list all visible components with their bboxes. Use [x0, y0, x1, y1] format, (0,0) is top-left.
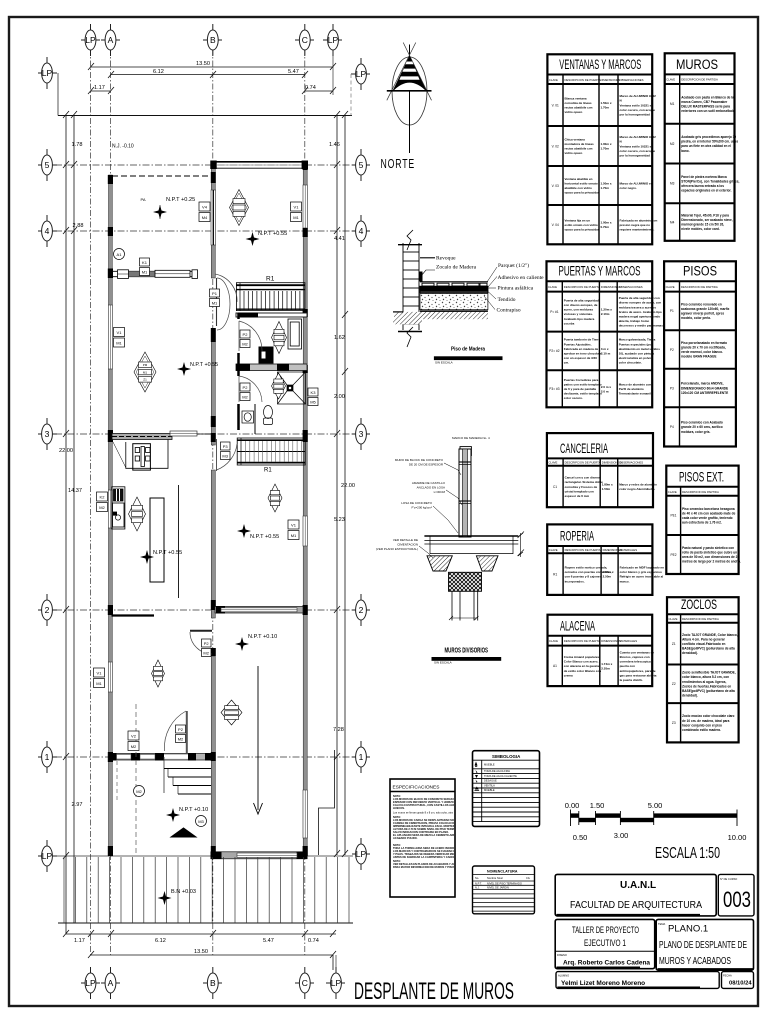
- svg-text:por la homogeneidad: por la homogeneidad: [620, 113, 651, 117]
- svg-text:Z1: Z1: [143, 378, 147, 382]
- uanl box: [555, 874, 716, 916]
- svg-text:DESAGUE: DESAGUE: [484, 779, 497, 783]
- svg-text:marca Comex, CB7 Pasamaker: marca Comex, CB7 Pasamaker: [681, 100, 728, 104]
- circle A bottom: [101, 967, 120, 999]
- 003 box: [718, 874, 754, 916]
- svg-text:6.12: 6.12: [155, 938, 166, 944]
- svg-text:2.50m: 2.50m: [603, 575, 612, 579]
- svg-text:CANCELERIA: CANCELERIA: [560, 440, 608, 456]
- svg-text:CLAVE: CLAVE: [548, 461, 557, 465]
- svg-text:2.88: 2.88: [73, 223, 84, 229]
- svg-text:Zocalo de Madera: Zocalo de Madera: [436, 265, 477, 271]
- svg-text:Piso ceramico barcelona hexag: Piso ceramico barcelona hexagona: [682, 507, 735, 511]
- svg-text:TEMA: TEMA: [658, 922, 665, 926]
- svg-text:4: 4: [45, 226, 50, 236]
- north symbol: [392, 57, 427, 125]
- row 2 wall B..C: [215, 607, 303, 614]
- svg-text:Refrigio en acero inoxidable a: Refrigio en acero inoxidable al: [620, 575, 664, 579]
- svg-text:M1: M1: [143, 370, 147, 374]
- table MUROS: [665, 53, 740, 241]
- svg-text:DESCRIPCION DE PUERTA: DESCRIPCION DE PUERTA: [565, 461, 601, 465]
- leader zocalo: [421, 270, 435, 276]
- svg-text:PA: PA: [140, 197, 145, 202]
- svg-text:LP: LP: [42, 851, 53, 861]
- table ALACENA: [548, 615, 657, 686]
- svg-text:P2: P2: [243, 385, 249, 390]
- svg-text:A1: A1: [553, 664, 557, 668]
- svg-text:120x120 CM ANTIRREPELENTE: 120x120 CM ANTIRREPELENTE: [681, 391, 728, 395]
- svg-text:FACULTAD DE ARQUITECTURA: FACULTAD DE ARQUITECTURA: [570, 899, 702, 911]
- svg-text:DESCRIPCION DE PARTIDA: DESCRIPCION DE PARTIDA: [682, 617, 719, 621]
- svg-text:Blanca ventana: Blanca ventana: [565, 96, 587, 100]
- leaders with tiny labels: [376, 458, 446, 551]
- svg-text:V1: V1: [291, 523, 297, 528]
- svg-text:V4: V4: [202, 205, 208, 210]
- svg-text:Piso de Madera: Piso de Madera: [451, 347, 485, 353]
- wall A outer left: gray body: [109, 175, 113, 856]
- svg-text:CLAVE: CLAVE: [666, 285, 675, 289]
- circle LP right of row LP elbow: [351, 58, 370, 90]
- svg-text:con diseno europeo, de: con diseno europeo, de: [564, 303, 598, 307]
- svg-text:N° DE CURSO: N° DE CURSO: [720, 877, 737, 881]
- svg-text:marco.: marco.: [620, 579, 630, 583]
- leader contrapiso: [484, 296, 495, 310]
- svg-text:P3: P3: [670, 386, 674, 390]
- tag V4/M4: [199, 202, 210, 222]
- svg-text:2.00: 2.00: [334, 394, 345, 400]
- svg-text:opaco para la privacidad: opaco para la privacidad: [565, 228, 600, 232]
- tag K2/M2 kitchen: [97, 492, 108, 512]
- svg-text:M2: M2: [242, 395, 248, 400]
- svg-text:R1: R1: [553, 572, 557, 576]
- svg-text:0.74: 0.74: [305, 85, 316, 91]
- svg-text:cristal templado con: cristal templado con: [565, 489, 594, 493]
- svg-text:PISOS: PISOS: [683, 264, 717, 279]
- svg-text:Ventana estilo 10221 en: Ventana estilo 10221 en: [620, 144, 654, 148]
- terrace base line: [58, 922, 353, 924]
- svg-text:piedra, en el interior 50%200: piedra, en el interior 50%200 cm. usos: [681, 140, 738, 144]
- svg-text:CLAVE: CLAVE: [549, 639, 558, 643]
- svg-text:3: 3: [359, 429, 364, 439]
- table PUERTAS Y MARCOS: [547, 261, 664, 407]
- svg-text:P1: P1: [212, 291, 218, 296]
- svg-text:electrostatica en polvo: electrostatica en polvo: [619, 356, 652, 360]
- svg-text:5.47: 5.47: [288, 69, 299, 75]
- svg-text:5: 5: [359, 160, 364, 170]
- svg-text:Marco de ALUMINIO 9282: Marco de ALUMINIO 9282: [620, 94, 657, 98]
- circle 4 left: [38, 215, 57, 247]
- svg-text:1.80m x: 1.80m x: [603, 570, 614, 574]
- circle LP bottom-left: [38, 840, 57, 872]
- svg-text:2.55m: 2.55m: [601, 667, 610, 671]
- svg-text:VENTILA: VENTILA: [484, 783, 495, 787]
- svg-text:color blanco y gris espacioso: color blanco y gris espacioso: [620, 570, 662, 574]
- svg-text:metros de largo por 2 metros d: metros de largo por 2 metros de ancho.: [682, 560, 741, 564]
- svg-text:marmol grande 15 cm 50/ 26,: marmol grande 15 cm 50/ 26,: [681, 223, 724, 227]
- svg-text:Z3: Z3: [672, 721, 676, 725]
- svg-text:N.P.T +0.10: N.P.T +0.10: [248, 634, 277, 640]
- svg-text:opaco para la privacidad: opaco para la privacidad: [565, 191, 600, 195]
- bathroom divider wall: [236, 364, 307, 371]
- bath1 closet: [288, 319, 302, 349]
- svg-text:agraver niverje porfeit, spres: agraver niverje porfeit, spres: [681, 312, 724, 316]
- top wall row5 B..C: [211, 161, 307, 163]
- svg-text:V. 04: V. 04: [552, 223, 559, 227]
- svg-text:de estilo color Blanco con: de estilo color Blanco con: [564, 669, 602, 673]
- tag P3/M3 bedroom door: [221, 442, 231, 460]
- driveway long arrow: [254, 666, 263, 814]
- svg-text:P4: P4: [670, 425, 674, 429]
- svg-text:OBSERVACIONES: OBSERVACIONES: [619, 461, 643, 465]
- svg-text:con un espesor de 3/40: con un espesor de 3/40: [564, 356, 598, 360]
- circle tag M2: [134, 786, 145, 797]
- svg-text:M2: M2: [99, 505, 105, 510]
- bath2 shower: [278, 372, 306, 404]
- svg-text:abatibile con vidrio: abatibile con vidrio: [565, 186, 593, 190]
- wall C outer right: [303, 161, 307, 856]
- svg-text:M1: M1: [96, 681, 102, 686]
- svg-text:SIN ESCALA: SIN ESCALA: [435, 361, 453, 365]
- svg-text:espesor de 6 mm: espesor de 6 mm: [565, 494, 590, 498]
- svg-text:puerta con: puerta con: [620, 664, 636, 668]
- svg-text:ROPERIA: ROPERIA: [560, 528, 594, 544]
- svg-text:color oscuro.: color oscuro.: [564, 396, 583, 400]
- svg-text:color oscuro, con acople: color oscuro, con acople: [620, 108, 656, 112]
- svg-text:Ventana fija en un: Ventana fija en un: [565, 218, 591, 222]
- circle LP bottom row A: [81, 967, 100, 999]
- circle 4 right: [352, 215, 370, 247]
- svg-text:1: 1: [45, 752, 50, 762]
- wall B black blocks: [211, 172, 216, 856]
- dim line 13.50 top: [91, 66, 334, 68]
- svg-text:(VER PLANO ESTRUCTURAL): (VER PLANO ESTRUCTURAL): [376, 547, 418, 551]
- plano box: [656, 919, 753, 970]
- svg-text:6.12: 6.12: [153, 69, 164, 75]
- svg-text:1: 1: [359, 752, 364, 762]
- row 1 axis: [55, 756, 353, 758]
- svg-text:vidrio opaco: vidrio opaco: [565, 110, 583, 114]
- svg-text:color blanco, altura 5.2 cm, c: color blanco, altura 5.2 cm, con: [682, 675, 729, 679]
- svg-text:M1: M1: [116, 341, 122, 346]
- svg-text:Zoclo semiflexible TAJOT GRAND: Zoclo semiflexible TAJOT GRANDE,: [682, 671, 736, 675]
- tendido stipple layer: [420, 294, 488, 310]
- svg-text:DIMENSIONES: DIMENSIONES: [601, 285, 621, 289]
- circle 5 left: [38, 149, 57, 181]
- svg-text:conflicto visual.Fabricado en: conflicto visual.Fabricado en: [682, 642, 725, 646]
- wall A black column blocks: [108, 175, 113, 856]
- svg-text:1.62: 1.62: [334, 335, 345, 341]
- tag E2 row1: [176, 725, 186, 743]
- svg-text:DIMENSIONADO 60x4 GRANDE: DIMENSIONADO 60x4 GRANDE: [681, 386, 728, 390]
- svg-text:antirrepujadores, para de: antirrepujadores, para de: [620, 669, 656, 673]
- svg-text:densidad).: densidad).: [682, 651, 698, 655]
- svg-text:U.A.N.L: U.A.N.L: [620, 880, 656, 891]
- svg-text:P2: P2: [243, 332, 249, 337]
- svg-text:M2: M2: [670, 142, 675, 146]
- svg-text:V1: V1: [117, 330, 123, 335]
- svg-text:Marco de ALUMINIO 9282: Marco de ALUMINIO 9282: [620, 135, 657, 139]
- svg-text:P2: P2: [178, 727, 184, 732]
- svg-text:montadora de lineas: montadora de lineas: [565, 142, 595, 146]
- counter edge line: [178, 485, 180, 598]
- left dim chain lines: [65, 116, 67, 935]
- svg-text:Cancel con y con diseno: Cancel con y con diseno: [565, 476, 600, 480]
- svg-text:AMARRE DE CASTILLO: AMARRE DE CASTILLO: [412, 481, 446, 485]
- table PISOS EXT.: [666, 466, 741, 574]
- svg-text:1.00m x: 1.00m x: [601, 221, 612, 225]
- svg-text:LP: LP: [356, 849, 367, 859]
- svg-text:M2: M2: [178, 737, 184, 742]
- svg-text:grande 20 x 60 cms, acrilico: grande 20 x 60 cms, acrilico: [681, 425, 723, 429]
- slab thickness dim: [520, 533, 522, 557]
- svg-text:color negro.: color negro.: [620, 186, 638, 190]
- svg-text:B: B: [210, 978, 216, 988]
- row 2 partial wall A side: [112, 614, 155, 616]
- grid line LP vertical: [90, 49, 92, 955]
- svg-text:LP: LP: [328, 35, 339, 45]
- svg-text:CLAVE: CLAVE: [549, 78, 558, 82]
- table ZOCLOS: [667, 596, 739, 743]
- parquet layer: [420, 282, 488, 286]
- grid line LP right stub bottom: [335, 955, 337, 973]
- bottom dim: [451, 617, 477, 619]
- svg-text:DESCRIPCION DE PUERTA: DESCRIPCION DE PUERTA: [565, 548, 601, 552]
- wall A window segments: [108, 305, 112, 692]
- svg-text:5.23: 5.23: [334, 517, 345, 523]
- svg-text:0.00: 0.00: [565, 801, 580, 810]
- svg-text:ACABADO PULIDO.: ACABADO PULIDO.: [393, 836, 418, 840]
- taller box: [555, 919, 655, 968]
- svg-text:PISOS EXT.: PISOS EXT.: [679, 468, 724, 484]
- svg-text:SIMBOLOGIA: SIMBOLOGIA: [492, 754, 521, 759]
- svg-text:hacer conjunto con el piso: hacer conjunto con el piso: [682, 723, 722, 727]
- svg-text:N.P.T +0.10: N.P.T +0.10: [179, 807, 208, 813]
- leader adhesivo: [488, 277, 497, 288]
- circle C top: [295, 24, 314, 56]
- svg-text:FECHA: FECHA: [723, 974, 732, 978]
- svg-text:1.50m: 1.50m: [602, 487, 611, 491]
- svg-text:M3: M3: [198, 819, 204, 824]
- svg-text:DESCRIPCION DE PARTIDA: DESCRIPCION DE PARTIDA: [682, 490, 719, 494]
- row 3 axis: [55, 433, 353, 435]
- svg-text:con 6 puertas y 8 cajones: con 6 puertas y 8 cajones: [565, 575, 602, 579]
- circle LP bottom right end: [326, 967, 345, 999]
- svg-text:Zoclo macizo color chocolate c: Zoclo macizo color chocolate claro: [682, 714, 734, 718]
- dim line 6.12 / 5.47: [111, 74, 305, 76]
- svg-text:B: B: [210, 35, 216, 45]
- svg-text:K1: K1: [142, 260, 148, 265]
- row 1 wall A..B: [109, 754, 212, 761]
- slab verticals: [429, 536, 431, 554]
- svg-text:DESCRIPCION DE PARTIDA: DESCRIPCION DE PARTIDA: [681, 285, 718, 289]
- svg-text:con alacena en la gaveta: con alacena en la gaveta: [564, 664, 600, 668]
- svg-text:N.J.: N.J.: [475, 886, 480, 890]
- svg-text:Zoclos de huertas.Fabricados e: Zoclos de huertas.Fabricados en: [682, 684, 731, 688]
- break zigzag top: [407, 230, 413, 250]
- circle 2 left: [38, 594, 57, 626]
- svg-text:Acabado tipo madera: Acabado tipo madera: [564, 317, 595, 321]
- chain ticks left: [63, 111, 77, 859]
- svg-text:5.47: 5.47: [263, 938, 274, 944]
- svg-text:2.0 m x: 2.0 m x: [601, 385, 612, 389]
- svg-text:modelo, color perla.: modelo, color perla.: [681, 316, 711, 320]
- svg-text:MURO DE BLOCK DE CONCRETO: MURO DE BLOCK DE CONCRETO: [395, 458, 444, 462]
- door bedroom right (wall B): [216, 439, 218, 471]
- row 3 wall kitchen A..B: [112, 434, 172, 440]
- tag V1/M1 top right: [291, 202, 302, 222]
- svg-text:de 10 cm. de madera, ideal par: de 10 cm. de madera, ideal para: [682, 719, 730, 723]
- svg-text:incorporados.: incorporados.: [565, 579, 585, 583]
- svg-text:HUECOS.: HUECOS.: [393, 806, 405, 810]
- svg-text:L=30CM: L=30CM: [434, 490, 446, 494]
- svg-text:V1: V1: [294, 205, 300, 210]
- fecha box: [722, 972, 754, 989]
- svg-text:rendimientos al agua. ligeros,: rendimientos al agua. ligeros,: [682, 680, 726, 684]
- svg-text:Fabricada en madera de: Fabricada en madera de: [564, 347, 599, 351]
- svg-text:cm.: cm.: [564, 361, 569, 365]
- svg-text:MATERIALES: MATERIALES: [620, 639, 638, 643]
- bath2 sink: [242, 411, 254, 423]
- svg-text:1.17: 1.17: [74, 938, 85, 944]
- door bedroom left (row 2): [190, 632, 212, 654]
- circle 1 left: [38, 741, 57, 773]
- svg-text:BASE(poliPVC) (poliuretano de: BASE(poliPVC) (poliuretano de alta: [682, 689, 735, 693]
- elbow bottom right: [332, 955, 334, 970]
- circle LP left row: [38, 57, 57, 89]
- svg-text:abierta, trabajo homo: abierta, trabajo homo: [619, 319, 650, 323]
- svg-text:C1: C1: [553, 485, 557, 489]
- svg-text:2.10 m: 2.10 m: [601, 352, 611, 356]
- svg-text:M2: M2: [242, 342, 248, 347]
- svg-text:M3: M3: [222, 454, 228, 459]
- svg-text:LP: LP: [85, 978, 96, 988]
- svg-text:7.28: 7.28: [333, 727, 344, 733]
- svg-text:espacios originales en el exte: espacios originales en el exterior.: [681, 189, 731, 193]
- svg-text:PARA MAYOR INFORMACION DE MURO: PARA MAYOR INFORMACION DE MUROS Y PISOS.: [393, 865, 456, 869]
- svg-text:MUEBLE: MUEBLE: [484, 763, 495, 767]
- svg-text:ALACENA: ALACENA: [560, 617, 595, 633]
- svg-text:1.00m x: 1.00m x: [601, 142, 612, 146]
- level text near wall B: [177, 362, 191, 376]
- circle 3 right: [352, 418, 370, 450]
- svg-text:color oscuro, con acople: color oscuro, con acople: [620, 149, 656, 153]
- svg-text:Marco de aluminio con: Marco de aluminio con: [619, 383, 652, 387]
- svg-text:TOMA DE AGUA CALIENTE: TOMA DE AGUA CALIENTE: [484, 774, 517, 778]
- svg-text:PLANO DE DESPLANTE DE: PLANO DE DESPLANTE DE: [659, 940, 747, 951]
- svg-text:2.0 m: 2.0 m: [601, 389, 609, 393]
- svg-text:003: 003: [723, 887, 751, 912]
- svg-text:0.70m: 0.70m: [601, 225, 610, 229]
- elbow from LP right circle: [350, 74, 352, 116]
- row LP bottom wall B..C: [211, 852, 307, 859]
- tag V1/M1 left bedroom: [94, 668, 105, 688]
- top cap: [460, 447, 471, 456]
- svg-text:M1: M1: [293, 215, 299, 220]
- svg-text:N.P.T +0.55: N.P.T +0.55: [153, 550, 182, 556]
- svg-text:vistosas y sistemas.: vistosas y sistemas.: [564, 312, 593, 316]
- svg-text:estilo ornato con vidrio: estilo ornato con vidrio: [565, 223, 598, 227]
- svg-text:M2: M2: [136, 789, 142, 794]
- dim line 13.50 bottom: [91, 954, 334, 956]
- svg-text:madera nogal apertura fondo: madera nogal apertura fondo: [619, 315, 661, 319]
- leader parquet: [487, 267, 497, 282]
- svg-text:diseno europeo de acero, con: diseno europeo de acero, con: [619, 301, 662, 305]
- svg-text:NORTE: NORTE: [381, 157, 416, 171]
- svg-text:CLAVE: CLAVE: [668, 490, 677, 494]
- svg-text:CIMENTACION: CIMENTACION: [397, 543, 418, 547]
- svg-text:vidrio opaco: vidrio opaco: [565, 151, 583, 155]
- svg-text:M1: M1: [291, 533, 297, 538]
- svg-text:P3: P3: [223, 444, 229, 449]
- circle 3 left: [38, 418, 57, 450]
- leader tendido: [488, 292, 496, 300]
- svg-text:brutos de acero. Acabado tipo: brutos de acero. Acabado tipo: [619, 310, 662, 314]
- leader revoque: [420, 257, 435, 259]
- svg-text:Zoclo TAJOT GRANDE, Color blan: Zoclo TAJOT GRANDE, Color blanco,: [682, 633, 738, 637]
- svg-text:1.80m x: 1.80m x: [602, 482, 613, 486]
- svg-text:Puerta de alta seguridad: Puerta de alta seguridad: [564, 298, 599, 302]
- svg-text:M1: M1: [212, 301, 218, 306]
- svg-text:2: 2: [359, 605, 364, 615]
- svg-text:CLAVE: CLAVE: [669, 617, 678, 621]
- svg-text:Perfil de aluminio: Perfil de aluminio: [619, 387, 644, 391]
- svg-text:C: C: [302, 978, 308, 988]
- grid line B vertical: [212, 49, 214, 955]
- zocalo small rect: [420, 272, 423, 281]
- svg-text:M3: M3: [670, 182, 675, 186]
- svg-text:2: 2: [45, 605, 50, 615]
- svg-text:Puertas especiales (por: Puertas especiales (por: [619, 342, 654, 346]
- svg-text:aun estructura de 1.76 m2.: aun estructura de 1.76 m2.: [682, 521, 722, 525]
- svg-text:N.P.T +0.55: N.P.T +0.55: [190, 362, 218, 368]
- svg-text:OBSERVACIONES: OBSERVACIONES: [619, 285, 643, 289]
- svg-text:4.41: 4.41: [334, 236, 345, 242]
- grid line C vertical: [304, 49, 306, 955]
- tag pair on wall B door: [210, 289, 220, 307]
- svg-text:10.00: 10.00: [728, 833, 747, 842]
- svg-text:densidad).: densidad).: [682, 694, 698, 698]
- svg-text:B.N +0.03: B.N +0.03: [171, 889, 196, 895]
- svg-text:N.P.T.: N.P.T.: [475, 881, 482, 885]
- stairs R1 upper: [236, 276, 305, 311]
- circle LP top: [81, 24, 100, 56]
- svg-text:rollo de pasto sintetico que c: rollo de pasto sintetico que cubre un: [682, 551, 737, 555]
- svg-text:0.50: 0.50: [573, 833, 588, 842]
- svg-text:Fabricado en MDF laqueado en: Fabricado en MDF laqueado en: [620, 566, 665, 570]
- svg-text:PE2: PE2: [670, 553, 676, 557]
- svg-text:aprobar en tono chocolate: aprobar en tono chocolate: [564, 352, 602, 356]
- svg-text:rectas abatibile con: rectas abatibile con: [565, 147, 593, 151]
- circle B bottom: [203, 967, 222, 999]
- svg-text:NIVEL DE JARDIN: NIVEL DE JARDIN: [487, 886, 509, 890]
- ground hatch: [394, 312, 488, 319]
- svg-text:abatimiento en metal solidos: abatimiento en metal solidos: [619, 347, 661, 351]
- svg-text:DIMENSIONES: DIMENSIONES: [601, 78, 621, 82]
- svg-text:modelo GRAN FRAGUE: modelo GRAN FRAGUE: [681, 355, 716, 359]
- svg-text:A1: A1: [117, 252, 123, 257]
- svg-text:acero, con molduras: acero, con molduras: [564, 308, 594, 312]
- svg-text:C: C: [302, 35, 308, 45]
- door B stair hall: [215, 274, 237, 302]
- svg-text:NIVEL DE PISO TERMINADO: NIVEL DE PISO TERMINADO: [487, 881, 522, 885]
- door bath2: [239, 376, 262, 402]
- svg-text:moldura trasera y acentos: moldura trasera y acentos: [619, 305, 657, 309]
- svg-text:color chocolate.: color chocolate.: [619, 361, 642, 365]
- svg-text:TALLER DE PROYECTO: TALLER DE PROYECTO: [572, 925, 639, 935]
- svg-text:cada color verde grafito, teni: cada color verde grafito, teniendo: [682, 516, 733, 520]
- svg-text:ANTES DE FABRICAR LA CARPINTER: ANTES DE FABRICAR LA CARPINTERIA Y CANCE…: [393, 855, 464, 859]
- gray line: [420, 291, 488, 293]
